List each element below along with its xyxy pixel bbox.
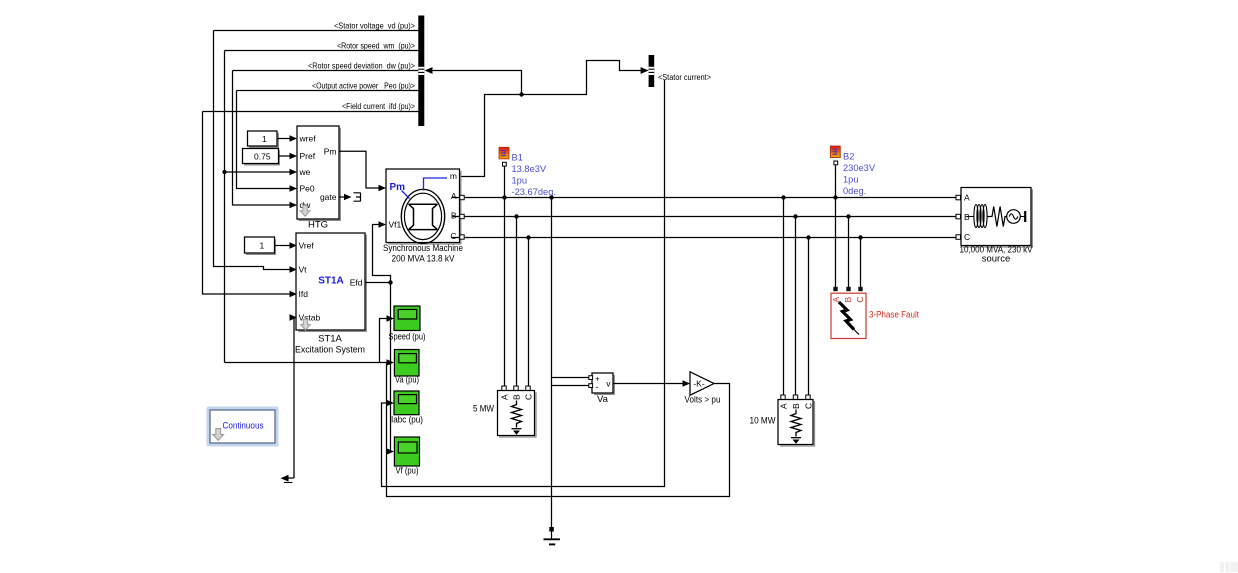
wire phase C: [464, 237, 956, 239]
constant 0.75 (Pref): [243, 149, 298, 165]
svg-text:<Stator voltage vd (pu)>: <Stator voltage vd (pu)>: [334, 20, 415, 30]
svg-text:Synchronous Machine: Synchronous Machine: [383, 243, 463, 254]
wire phase B: [464, 216, 956, 218]
machine icon ellipses: [401, 189, 444, 243]
ports A B C: [460, 195, 464, 199]
wire Pm to machine: [339, 151, 380, 188]
gain Volts > pu: [685, 372, 721, 406]
voltage measurement Va: [589, 373, 615, 405]
svg-text:we: we: [299, 167, 311, 177]
svg-text:Va: Va: [597, 394, 609, 405]
svg-text:3-Phase Fault: 3-Phase Fault: [869, 310, 919, 320]
svg-text:1: 1: [262, 134, 267, 144]
ground: [544, 527, 561, 544]
svg-text:<Output active power Peo (pu: <Output active power Peo (pu)>: [312, 80, 415, 90]
svg-text:Vf1: Vf1: [389, 220, 402, 230]
svg-text:1pu: 1pu: [843, 175, 859, 185]
svg-text:-23.67deg.: -23.67deg.: [512, 187, 556, 197]
block ST1A excitation system: [295, 233, 366, 356]
arrow into bus selector: [425, 67, 433, 74]
svg-text:13.8e3V: 13.8e3V: [512, 164, 547, 174]
wire wm to scopes horizontal: [225, 362, 389, 364]
svg-text:<Field current ifd (pu)>: <Field current ifd (pu)>: [342, 101, 415, 111]
svg-text:Volts > pu: Volts > pu: [685, 395, 721, 406]
scope Va: [394, 350, 419, 386]
svg-text:B: B: [843, 297, 853, 303]
constant 1 (Vref): [245, 237, 298, 254]
svg-text:A: A: [964, 193, 970, 203]
svg-text:230e3V: 230e3V: [843, 163, 876, 173]
svg-text:ST1A: ST1A: [318, 334, 342, 345]
blue m annotation line: [424, 178, 448, 191]
svg-text:B1: B1: [512, 153, 523, 163]
constant 1 (wref): [248, 131, 298, 147]
wire ifd to Ifd: [203, 112, 291, 295]
wire vd to Vt: [214, 31, 291, 270]
svg-text:m: m: [499, 149, 509, 157]
wire phase A: [464, 197, 956, 199]
UI artifacts bottom right: [1220, 562, 1238, 572]
block synchronous machine: [383, 169, 464, 265]
lightning icon: [839, 302, 854, 330]
arrows into HTG inputs: [290, 169, 298, 175]
wire dw to HTG: [233, 71, 292, 206]
source 10,000 MVA: [956, 188, 1033, 265]
svg-text:gate: gate: [320, 192, 337, 202]
scope Vf: [394, 437, 419, 476]
wire Efd to Vf1 and Vf scope: [365, 282, 391, 284]
wire C to fault: [860, 238, 862, 289]
bus selector (machine measurements): [418, 16, 424, 127]
wire Vstab stub: [291, 318, 295, 479]
svg-text:Pm: Pm: [324, 147, 337, 157]
load 10 MW: [750, 395, 815, 446]
wire wm to we and Speed scope: [224, 51, 226, 363]
scope Speed: [389, 306, 426, 343]
svg-text:ST1A: ST1A: [318, 276, 344, 287]
svg-text:A: A: [500, 394, 510, 400]
wire A to Va and ground: [551, 198, 553, 528]
svg-text:0.75: 0.75: [254, 152, 271, 162]
svg-text:1: 1: [260, 241, 265, 251]
svg-text:B2: B2: [843, 152, 854, 162]
svg-text:Efd: Efd: [350, 278, 363, 288]
svg-text:Pe0: Pe0: [300, 184, 315, 194]
svg-text:<Rotor speed wm (pu)>: <Rotor speed wm (pu)>: [337, 40, 415, 50]
wire Peo to Pe0: [237, 91, 292, 189]
wire Va to gain: [613, 383, 684, 385]
svg-text:C: C: [964, 232, 970, 242]
junction m loop: [519, 92, 523, 96]
svg-text:source: source: [982, 254, 1011, 265]
scope Iabc: [391, 391, 423, 425]
svg-text:C: C: [855, 296, 865, 302]
svg-text:200 MVA 13.8 kV: 200 MVA 13.8 kV: [392, 254, 456, 265]
svg-text:Speed (pu): Speed (pu): [389, 332, 426, 343]
wire C to 5MW load: [528, 238, 530, 387]
node label Rotor speed wm: [225, 40, 419, 50]
wire stator current to Iabc loop: [382, 80, 665, 487]
block 3-phase fault: [831, 287, 919, 339]
powergui Continuous: [207, 407, 279, 447]
wire A to 5MW load: [504, 198, 506, 387]
wire B to 5MW load: [516, 217, 518, 387]
wire B to fault: [848, 217, 850, 289]
node label Rotor speed deviation dw: [233, 60, 419, 70]
svg-text:<Rotor speed deviation dw (pu: <Rotor speed deviation dw (pu)>: [308, 60, 415, 70]
bus selector stator current: [641, 55, 711, 87]
source icon: [967, 216, 974, 218]
svg-text:-K-: -K-: [693, 378, 705, 388]
svg-text:A: A: [451, 191, 457, 201]
svg-text:B: B: [791, 403, 801, 409]
wire A to fault: [835, 198, 837, 289]
block HTG: [297, 126, 340, 231]
svg-text:A: A: [779, 403, 789, 409]
machine icon I-beam: [409, 204, 438, 229]
junction we: [222, 170, 226, 174]
wire A to 10MW load: [783, 198, 785, 395]
svg-text:wref: wref: [299, 134, 317, 144]
node label Output active power Peo: [237, 80, 419, 90]
wire speed branch: [380, 319, 389, 363]
wire m output loop: [460, 61, 644, 177]
svg-text:m: m: [830, 148, 840, 156]
svg-text:Ifd: Ifd: [299, 289, 309, 299]
junction B1/A: [502, 195, 506, 199]
svg-text:Pref: Pref: [300, 151, 316, 161]
svg-text:C: C: [804, 403, 814, 409]
svg-text:B: B: [512, 394, 522, 400]
svg-text:C: C: [450, 231, 456, 241]
arrows into ST1A inputs: [290, 266, 298, 272]
svg-text:Excitation System: Excitation System: [295, 345, 365, 356]
svg-text:1pu: 1pu: [512, 176, 528, 186]
svg-text:10 MW: 10 MW: [750, 416, 776, 427]
svg-text:Vt: Vt: [299, 265, 308, 275]
svg-text:HTG: HTG: [308, 220, 328, 231]
svg-text:Iabc (pu): Iabc (pu): [391, 414, 423, 425]
load 5 MW: [473, 386, 536, 437]
svg-text:C: C: [524, 394, 534, 400]
svg-text:-: -: [596, 382, 599, 392]
wire B to 10MW load: [795, 217, 797, 395]
svg-text:Vref: Vref: [299, 241, 315, 251]
svg-text:Vf (pu): Vf (pu): [396, 465, 419, 476]
svg-text:m: m: [450, 171, 457, 181]
measurement B2: [830, 146, 876, 198]
svg-text:0deg.: 0deg.: [843, 186, 866, 196]
svg-text:<Stator current>: <Stator current>: [658, 72, 711, 82]
wire gate to terminator: [339, 196, 345, 198]
svg-text:Continuous: Continuous: [223, 421, 264, 432]
node label Stator voltage vd: [214, 20, 419, 30]
node label Field current ifd: [203, 101, 419, 112]
wire C to 10MW load: [808, 238, 810, 395]
svg-text:Vstab: Vstab: [299, 313, 321, 323]
svg-text:5 MW: 5 MW: [473, 404, 494, 415]
wire gain to Va scope loop: [387, 363, 730, 497]
svg-text:Va (pu): Va (pu): [395, 375, 419, 386]
terminator (gate): [354, 193, 361, 201]
measurement B1: [499, 147, 556, 197]
svg-text:B: B: [451, 211, 457, 221]
